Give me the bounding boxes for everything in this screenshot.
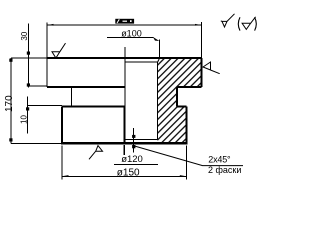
svg-text:2 фаски: 2 фаски (208, 165, 241, 175)
wire flange right edge (201, 58, 203, 87)
dimension d220 right arrow (195, 24, 202, 26)
wire flange top extension left (11, 57, 47, 59)
dimension 10 ext line (28, 105, 63, 107)
chamfer note leader (135, 146, 244, 166)
wire flange bottom right (177, 86, 201, 88)
dimension d220 line (47, 24, 202, 26)
dimension d150 line (62, 175, 186, 177)
wire neck right edge (176, 87, 178, 106)
dimension d120 shelf (114, 163, 158, 165)
corner roughness check 2 (242, 17, 256, 30)
label d220 (115, 19, 134, 24)
svg-text:170: 170 (4, 95, 15, 112)
dimension d150 left ext (61, 146, 63, 180)
dimension d120 lower arrow (132, 145, 135, 148)
dimension 10 dot (26, 107, 29, 110)
svg-text:10: 10 (19, 115, 28, 124)
dimension d150 left arrow (62, 175, 69, 177)
dimension 170 line (10, 58, 12, 143)
wire bore right wall (157, 62, 159, 139)
wire bore chamfer diagonal (158, 58, 160, 62)
wire center cut edge thick (123, 106, 125, 144)
dimension 30 dot top (27, 52, 30, 55)
dimension 10 line (27, 96, 29, 133)
dimension d100 ext (158, 40, 160, 59)
roughness symbol bottom (89, 146, 103, 160)
wire bottom extension left (11, 142, 62, 144)
wire bottom edge (62, 142, 187, 144)
dimension d120 upper arrow (132, 135, 135, 138)
wire body top step right (177, 105, 186, 107)
hatch section area (158, 58, 202, 143)
wire flange left edge (46, 58, 48, 87)
svg-text:ø100: ø100 (121, 29, 142, 39)
wire body right edge (186, 106, 188, 144)
wire body top step left (62, 105, 125, 107)
dimension d150 right arrow (180, 175, 187, 177)
wire centerline upper (124, 47, 126, 106)
wire flange bottom left (47, 86, 125, 88)
dimension 30 line (27, 23, 29, 87)
dimension 30 dot bottom (27, 83, 30, 86)
dimension d150 right ext (185, 146, 187, 180)
dimension 170 dot top (9, 59, 12, 62)
wire cavity floor line (124, 138, 157, 140)
dimension d220 left arrow (47, 24, 54, 26)
wire neck left edge (70, 87, 72, 106)
svg-text:ø150: ø150 (117, 167, 140, 178)
roughness symbol top left (52, 43, 66, 58)
wire flange top edge (47, 57, 202, 59)
dimension d120 left ext below (123, 145, 125, 155)
dimension d120 upper leader tail (133, 128, 135, 153)
dimension d220 right ext (201, 22, 203, 58)
wire bore chamfer bottom line (125, 61, 157, 63)
svg-text:ø120: ø120 (121, 154, 143, 165)
svg-text:30: 30 (20, 31, 29, 40)
dimension d100 shelf (107, 37, 154, 39)
wire body left edge (61, 106, 63, 144)
dimension 30 ext line (28, 85, 47, 87)
roughness symbol right (203, 62, 220, 74)
dimension 170 dot bottom (9, 138, 12, 141)
corner roughness check 1 (221, 14, 235, 27)
corner roughness paren right (255, 17, 257, 30)
dimension d100 arrow (153, 37, 160, 41)
svg-text:2x45°: 2x45° (208, 154, 231, 164)
corner roughness paren left (238, 17, 240, 30)
dimension d220 left ext (46, 22, 48, 58)
